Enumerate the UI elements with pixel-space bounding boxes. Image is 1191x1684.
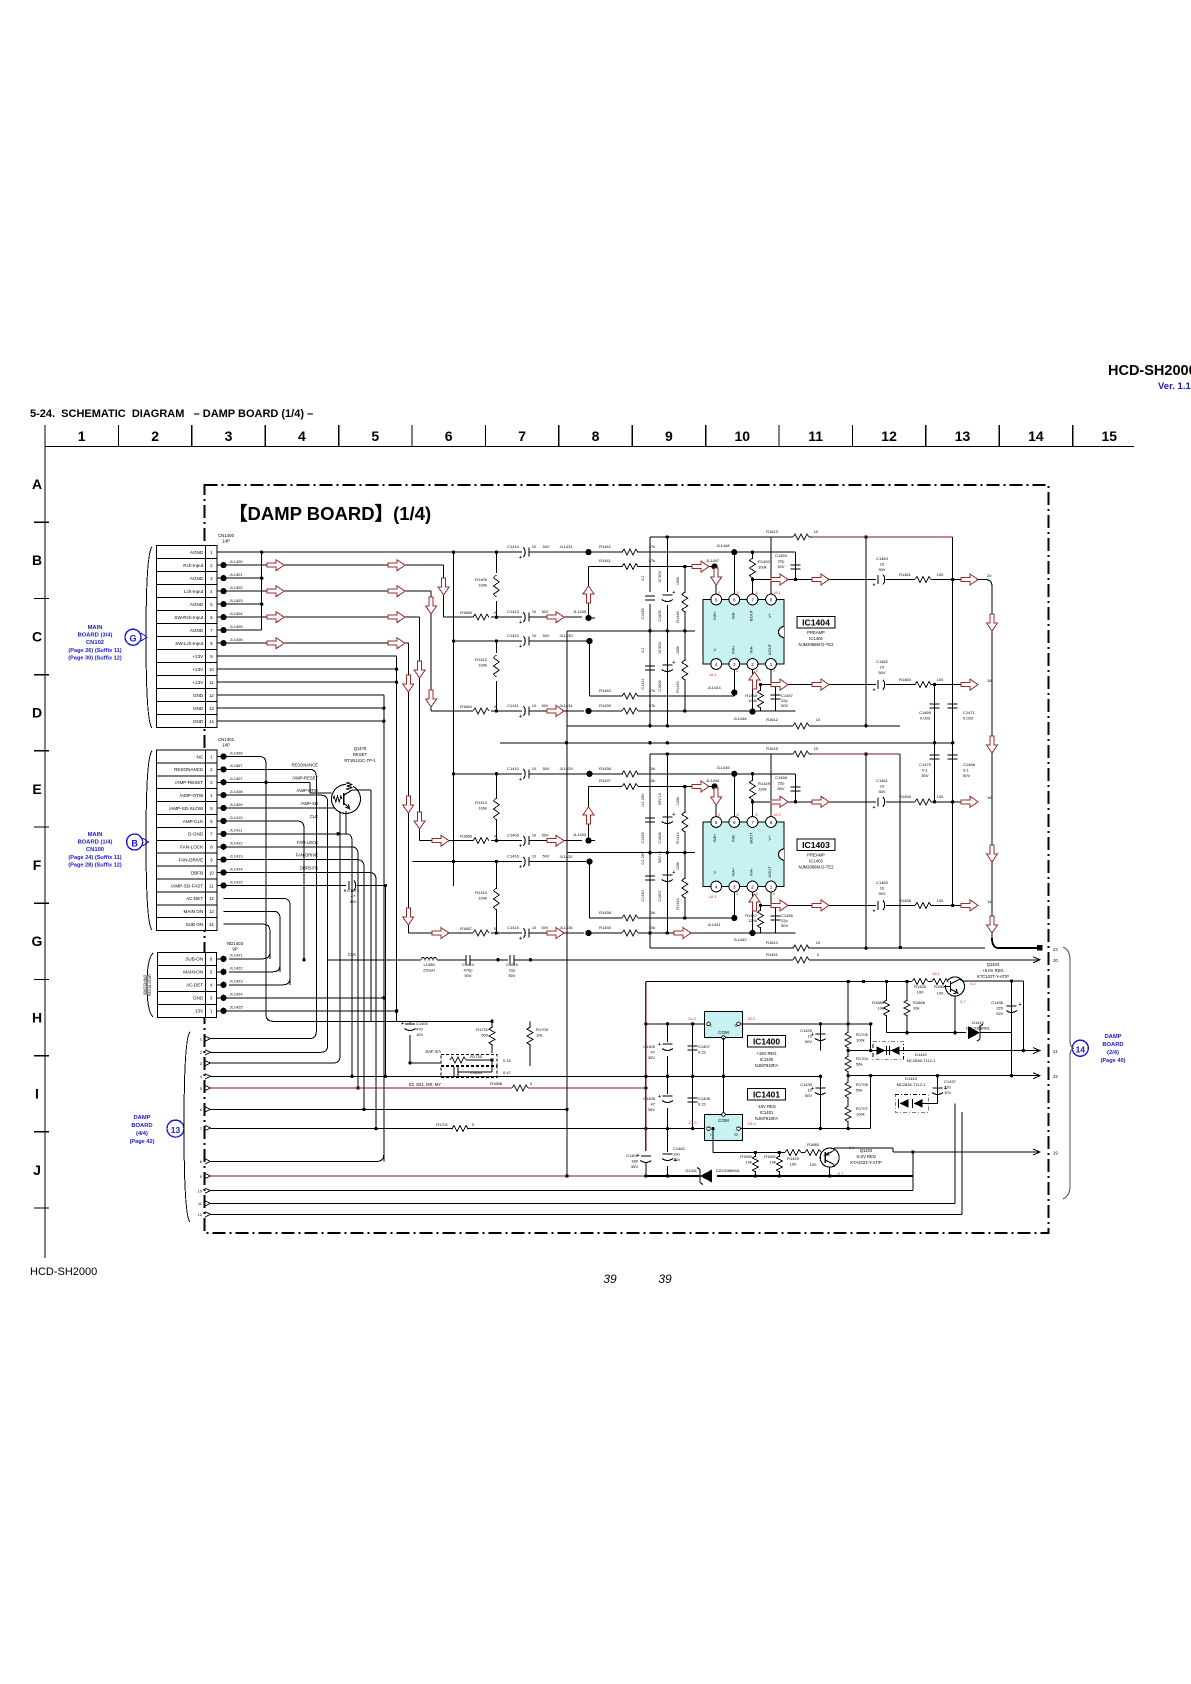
svg-text:15: 15 <box>1102 428 1118 444</box>
svg-text:JL1410: JL1410 <box>230 815 244 820</box>
svg-text:9: 9 <box>665 428 673 444</box>
svg-text:JL1401: JL1401 <box>230 572 244 577</box>
svg-text:+13V: +13V <box>192 654 204 659</box>
svg-text:R1437: R1437 <box>599 778 612 783</box>
svg-text:Rch-Input: Rch-Input <box>183 563 204 568</box>
wire COM ground link <box>722 1038 725 1115</box>
svg-text:120k: 120k <box>758 787 767 792</box>
svg-text:47: 47 <box>351 894 356 899</box>
svg-text:6: 6 <box>445 428 453 444</box>
svg-text:D1443: D1443 <box>905 1076 918 1081</box>
svg-text:C1470: C1470 <box>919 762 932 767</box>
svg-text:R1687: R1687 <box>460 926 473 931</box>
svg-text:+: + <box>519 644 522 650</box>
svg-text:NJM7918FA: NJM7918FA <box>755 1116 778 1121</box>
wire 13V to resistors R1731 R1705 <box>408 1020 530 1065</box>
svg-text:(Page 30) (Suffix 12): (Page 30) (Suffix 12) <box>68 656 122 662</box>
resistor R1685 and capacitor C1413 <box>444 609 582 626</box>
wire DBFB <box>224 873 378 1131</box>
wire output 18 with arrow <box>961 678 992 938</box>
svg-text:BOARD: BOARD <box>1102 1042 1123 1048</box>
svg-text:DAMP: DAMP <box>1104 1034 1121 1040</box>
svg-text:18.2: 18.2 <box>747 1016 756 1021</box>
wire R1441 line <box>573 558 722 621</box>
resistors R1689 R1688 10k <box>872 982 925 1033</box>
svg-text:+: + <box>519 936 522 942</box>
svg-text:8: 8 <box>592 428 600 444</box>
svg-text:+: + <box>658 1042 661 1048</box>
svg-text:+: + <box>519 555 522 561</box>
resistor R1413 100k <box>475 772 500 842</box>
svg-text:R1445: R1445 <box>676 681 680 692</box>
svg-text:C1437: C1437 <box>944 1079 957 1084</box>
svg-text:C1412: C1412 <box>507 633 520 638</box>
svg-text:C1463: C1463 <box>876 556 889 561</box>
svg-text:6: 6 <box>733 597 736 602</box>
wire FAN-LOCK <box>224 847 360 1090</box>
svg-text:R1701: R1701 <box>436 1122 449 1127</box>
resistor R1410 100k <box>475 860 500 935</box>
svg-text:R1614: R1614 <box>766 940 779 945</box>
svg-text:C1460: C1460 <box>876 880 889 885</box>
svg-text:C1435: C1435 <box>641 608 645 619</box>
svg-text:J: J <box>33 1162 41 1178</box>
svg-text:Q1475: Q1475 <box>354 746 367 751</box>
svg-text:AGND: AGND <box>190 576 204 581</box>
wire /AMP-SD-FAST and capacitor C1673 <box>224 880 388 1078</box>
svg-text:R1449: R1449 <box>758 781 771 786</box>
svg-text:INB-: INB- <box>730 611 735 620</box>
wire emitter Q1475 to D-GND <box>338 813 346 834</box>
svg-text:9P: 9P <box>232 947 237 952</box>
svg-text:22p: 22p <box>509 968 516 973</box>
wire pin10 <box>211 1190 913 1192</box>
resistor R1686 and capacitor C1409 <box>420 833 582 850</box>
svg-text:220uH: 220uH <box>423 968 435 973</box>
svg-text:100k: 100k <box>676 577 680 585</box>
svg-text:JL1426: JL1426 <box>230 750 244 755</box>
svg-text:C1430: C1430 <box>800 1082 813 1087</box>
svg-text:13: 13 <box>209 909 214 914</box>
wire ND1403 GND row <box>224 996 386 999</box>
svg-text:56k: 56k <box>856 1062 862 1067</box>
resistor R1449 120k <box>749 774 771 817</box>
wire Q1403 collector to pin 21 <box>959 980 1025 1053</box>
svg-text:35V: 35V <box>631 1164 638 1169</box>
node MAIN BOARD CN100 reference <box>68 832 148 869</box>
svg-text:ND1403: ND1403 <box>227 941 244 946</box>
capacitor C1441 <box>641 631 655 726</box>
capacitor C1400 <box>395 1010 429 1063</box>
svg-text:0.033: 0.033 <box>920 716 931 721</box>
resistor R1445 100k <box>676 631 688 713</box>
svg-text:14: 14 <box>209 922 214 927</box>
wire top rail y537 <box>650 535 868 727</box>
svg-text:JL1447: JL1447 <box>706 558 720 563</box>
svg-text:.8: .8 <box>735 813 738 817</box>
svg-text:10: 10 <box>880 886 885 891</box>
wire pin 19 line <box>893 1148 1058 1176</box>
svg-text:1: 1 <box>78 428 86 444</box>
svg-text:JL1429: JL1429 <box>559 766 573 771</box>
svg-text:/AMP-RESET: /AMP-RESET <box>175 780 203 785</box>
left ruler <box>32 447 49 1259</box>
svg-text:INB-: INB- <box>730 833 735 842</box>
svg-text:SUB-ON: SUB-ON <box>185 957 203 962</box>
svg-text:0.47: 0.47 <box>503 1070 512 1075</box>
svg-text:10: 10 <box>532 545 536 549</box>
svg-text:JL1436: JL1436 <box>559 925 573 930</box>
capacitor C1410 <box>452 766 586 783</box>
board border <box>205 485 1049 1233</box>
capacitor C1608 <box>658 754 675 853</box>
svg-text:100: 100 <box>917 990 924 995</box>
wire AOUT output IC1403 <box>759 892 876 911</box>
svg-text:(Page 26) (Suffix 11): (Page 26) (Suffix 11) <box>68 648 121 654</box>
svg-text:JL1448: JL1448 <box>716 543 730 548</box>
svg-text:14: 14 <box>1028 428 1044 444</box>
svg-text:R1446: R1446 <box>676 611 680 622</box>
svg-text:10 50V: 10 50V <box>658 642 662 655</box>
svg-text:JL1444: JL1444 <box>706 778 720 783</box>
svg-text:47: 47 <box>651 1050 656 1055</box>
svg-text:R1460: R1460 <box>899 677 912 682</box>
svg-text:RESONANCE: RESONANCE <box>291 762 318 767</box>
capacitor C1436 <box>991 979 1021 1032</box>
svg-text:/AMP-SD-SLOW: /AMP-SD-SLOW <box>169 806 204 811</box>
svg-text:JL1431: JL1431 <box>559 544 573 549</box>
svg-text:10: 10 <box>816 717 821 722</box>
svg-text:C1413: C1413 <box>507 609 520 614</box>
wire IC1400 input line <box>644 1016 708 1026</box>
svg-text:BOUT: BOUT <box>749 609 754 621</box>
svg-text:10 50V: 10 50V <box>658 571 662 584</box>
svg-text:R1461: R1461 <box>899 572 912 577</box>
svg-text:AGND: AGND <box>190 628 204 633</box>
svg-text:14: 14 <box>1076 1045 1086 1055</box>
svg-text:39: 39 <box>658 1272 672 1286</box>
svg-text:5: 5 <box>715 597 718 602</box>
jumper links JL1426-JL1415 <box>218 750 244 888</box>
svg-text:(4/4): (4/4) <box>136 1131 148 1137</box>
svg-text:D: D <box>32 705 42 721</box>
svg-text:D1411: D1411 <box>686 1168 698 1173</box>
svg-text:0: 0 <box>736 669 738 673</box>
svg-text:+: + <box>519 844 522 850</box>
svg-text:R1613: R1613 <box>766 529 779 534</box>
svg-text:A: A <box>32 476 42 492</box>
svg-text:JL1424: JL1424 <box>230 992 244 997</box>
svg-text:.8: .8 <box>735 591 738 595</box>
svg-text:0: 0 <box>773 892 775 896</box>
svg-text:100k: 100k <box>478 583 487 588</box>
capacitor C1405 <box>643 1024 675 1076</box>
svg-text:0.22: 0.22 <box>698 1102 707 1107</box>
svg-text:R1409: R1409 <box>475 577 488 582</box>
svg-text:0: 0 <box>756 892 758 896</box>
svg-text:0.1: 0.1 <box>641 575 645 580</box>
resistors R1706 R1707 divider <box>845 1082 869 1122</box>
svg-text:C1401: C1401 <box>626 1153 639 1158</box>
svg-text:10k: 10k <box>878 1006 884 1011</box>
svg-text:47: 47 <box>651 1102 656 1107</box>
svg-text:MAIN: MAIN <box>88 832 103 838</box>
wire top rail y754 <box>650 752 868 950</box>
svg-text:R1429: R1429 <box>787 1156 800 1161</box>
svg-text:50V: 50V <box>542 834 549 838</box>
svg-text:JL1414: JL1414 <box>230 866 244 871</box>
svg-text:1: 1 <box>770 662 773 667</box>
svg-text:C1459: C1459 <box>775 553 788 558</box>
svg-text:100: 100 <box>673 1152 680 1157</box>
svg-text:+18V REG: +18V REG <box>756 1051 776 1056</box>
svg-text:12: 12 <box>209 896 214 901</box>
wire GND bus y742 <box>500 741 954 744</box>
svg-text:+13V: +13V <box>192 667 204 672</box>
node DAMP BOARD 4/4 reference <box>130 1115 184 1145</box>
red voltage labels IC1403 <box>708 813 781 899</box>
svg-text:3: 3 <box>225 428 233 444</box>
svg-text:RESET: RESET <box>353 752 367 757</box>
svg-text:C: C <box>32 628 42 644</box>
svg-text:10: 10 <box>814 529 819 534</box>
svg-text:R1426: R1426 <box>914 984 927 989</box>
svg-text:8: 8 <box>770 820 773 825</box>
svg-text:JL1415: JL1415 <box>230 879 244 884</box>
wire SW-Lch-Input <box>224 638 414 933</box>
svg-text:IC1403: IC1403 <box>802 840 830 850</box>
svg-text:100k: 100k <box>748 698 757 703</box>
svg-text:2: 2 <box>751 884 754 889</box>
resistor R1687 and capacitor C1415 <box>408 925 584 942</box>
svg-text:50V: 50V <box>878 891 885 896</box>
capacitor C1439 <box>641 754 655 853</box>
wire pin 21 line <box>848 1048 1058 1054</box>
svg-text:+: + <box>672 812 675 818</box>
svg-text:C1634: C1634 <box>470 1070 483 1075</box>
svg-text:7: 7 <box>751 820 754 825</box>
wire pin 22 line <box>848 1033 1058 1079</box>
svg-text:R1704: R1704 <box>856 1056 869 1061</box>
svg-text:R1691: R1691 <box>764 1154 777 1159</box>
svg-text:AC-DET: AC-DET <box>186 896 203 901</box>
capacitor C1430 <box>800 1076 826 1130</box>
capacitor C1460 output AC coupling <box>873 880 961 914</box>
svg-text:+: + <box>672 870 675 876</box>
svg-text:470: 470 <box>416 1027 423 1032</box>
svg-text:INB+: INB+ <box>712 610 717 620</box>
wire pin5 red supply <box>211 1086 648 1089</box>
svg-text:R1436: R1436 <box>599 766 612 771</box>
svg-text:C1606: C1606 <box>658 680 662 691</box>
svg-text:FAN-DRIVE: FAN-DRIVE <box>179 857 204 862</box>
svg-text:I: I <box>710 1132 711 1137</box>
svg-text:AOUT: AOUT <box>767 643 772 655</box>
svg-text:120k: 120k <box>676 862 680 870</box>
svg-text:100: 100 <box>937 794 944 799</box>
svg-text:19: 19 <box>1053 1151 1058 1156</box>
svg-text:Ver. 1.1: Ver. 1.1 <box>1158 381 1191 392</box>
svg-text:(Page 40): (Page 40) <box>1101 1058 1126 1064</box>
diode pair D1443 <box>895 1076 928 1112</box>
svg-text:14P: 14P <box>222 743 230 748</box>
wire IC1401 output line <box>741 1074 873 1130</box>
svg-text:MAIN: MAIN <box>88 625 103 631</box>
svg-text:V+: V+ <box>767 835 772 841</box>
label IC1401 <box>748 1089 786 1122</box>
svg-text:NJM2068M-D-TE2: NJM2068M-D-TE2 <box>799 642 835 647</box>
svg-text:BOUT: BOUT <box>749 832 754 844</box>
wire rail R1612 <box>567 641 900 1176</box>
svg-text:FAN-LOCK: FAN-LOCK <box>180 845 204 850</box>
svg-text:Lch-Input: Lch-Input <box>184 589 204 594</box>
svg-text:+: + <box>672 590 675 596</box>
capacitor C1605 <box>658 537 675 631</box>
svg-text:R1731: R1731 <box>476 1027 489 1032</box>
svg-text:+5.0V REG: +5.0V REG <box>982 968 1003 973</box>
svg-text:8: 8 <box>770 597 773 602</box>
svg-text:0.1 25V: 0.1 25V <box>641 851 645 865</box>
transistor Q1403 <box>932 962 1009 1004</box>
svg-text:12: 12 <box>881 428 897 444</box>
capacitor C1461 output AC coupling <box>873 778 961 811</box>
svg-text:10: 10 <box>209 667 214 672</box>
svg-text:AGND: AGND <box>190 602 204 607</box>
svg-text:RESONANCE: RESONANCE <box>174 767 203 772</box>
wire output 16 with arrow <box>961 795 998 938</box>
wire AMP-CLK to CLK line <box>224 821 306 962</box>
brace damp board 2/4 <box>1063 947 1074 1199</box>
svg-text:C1409: C1409 <box>507 833 520 838</box>
capacitor C1458 22p <box>775 774 800 802</box>
wire /AMP-SD-SLOW <box>211 808 386 1076</box>
svg-text:100k: 100k <box>478 663 487 668</box>
svg-text:HCD-SH2000: HCD-SH2000 <box>1108 363 1191 379</box>
svg-text:C1440: C1440 <box>641 890 645 901</box>
wire AGND bus from CN1400 pin1 <box>218 551 456 631</box>
wire Q1403 emitter <box>953 996 956 1034</box>
capacitor C1457 22p <box>771 685 794 711</box>
page footer <box>30 1266 672 1286</box>
svg-text:100: 100 <box>937 677 944 682</box>
connector to damp board 4/4 pins 1-12 <box>184 1032 211 1222</box>
svg-text:DBFB: DBFB <box>191 870 203 875</box>
svg-text:R1705: R1705 <box>536 1027 549 1032</box>
svg-text:50V: 50V <box>805 1093 812 1098</box>
svg-text:100: 100 <box>937 898 944 903</box>
svg-text:C1605: C1605 <box>658 610 662 621</box>
svg-text:50V: 50V <box>543 634 550 638</box>
wire dark red to output column <box>812 537 953 580</box>
svg-text:100k: 100k <box>478 896 487 901</box>
svg-text:IC1401: IC1401 <box>753 1090 780 1100</box>
capacitors C1470 C1468 <box>919 743 975 906</box>
svg-text:50V: 50V <box>543 545 550 549</box>
svg-text:KTC102T-Y-AT/P: KTC102T-Y-AT/P <box>977 974 1009 979</box>
svg-text:/AMP-SD-FAST: /AMP-SD-FAST <box>171 883 203 888</box>
svg-text:R1441: R1441 <box>599 558 612 563</box>
svg-text:R1442: R1442 <box>599 544 612 549</box>
resistor R1448 100k <box>745 685 764 711</box>
connector CN1401 <box>146 737 235 931</box>
capacitor C1416 <box>413 854 586 871</box>
svg-text:16V: 16V <box>416 1032 423 1037</box>
svg-text:-5.7: -5.7 <box>837 1171 845 1176</box>
svg-text:+: + <box>1019 1002 1022 1008</box>
svg-text:JL1434: JL1434 <box>559 703 573 708</box>
svg-text:0.1 25V: 0.1 25V <box>641 793 645 807</box>
svg-text:JL1430: JL1430 <box>559 633 573 638</box>
svg-text:JL1425: JL1425 <box>230 1005 244 1010</box>
resistor R1447 120k <box>745 905 764 933</box>
zener diode D1411 <box>686 1168 741 1185</box>
svg-text:50V 10: 50V 10 <box>658 851 662 863</box>
svg-text:13V: 13V <box>195 1009 204 1014</box>
svg-text:4: 4 <box>298 428 306 444</box>
wire R1436 line <box>559 765 795 817</box>
svg-text:0.22: 0.22 <box>698 1050 707 1055</box>
svg-text:220: 220 <box>996 1006 1003 1011</box>
svg-text:R1438: R1438 <box>599 910 612 915</box>
wire pin8 to GND bus <box>211 1154 384 1161</box>
svg-text:22p: 22p <box>778 559 785 564</box>
svg-text:50V: 50V <box>542 610 549 614</box>
svg-text:+: + <box>344 888 347 894</box>
resistors R1426 R1684 base <box>907 978 948 996</box>
svg-text:IC1400: IC1400 <box>760 1057 774 1062</box>
resistor R1688 0 <box>490 1081 533 1092</box>
svg-text:GND: GND <box>193 693 204 698</box>
svg-text:18.1: 18.1 <box>773 591 780 595</box>
svg-text:10k: 10k <box>746 1160 752 1165</box>
svg-text:/AMP-OTW: /AMP-OTW <box>180 793 204 798</box>
svg-text:JL1400: JL1400 <box>230 559 244 564</box>
svg-text:50V: 50V <box>805 1039 812 1044</box>
svg-text:JL1423: JL1423 <box>230 979 244 984</box>
svg-text:AOUT: AOUT <box>767 866 772 878</box>
net labels CN1401 signals <box>291 762 318 870</box>
svg-text:4: 4 <box>715 884 718 889</box>
regulator IC1400 <box>705 1012 743 1040</box>
svg-text:10: 10 <box>816 940 821 945</box>
svg-text:AMP-CLK: AMP-CLK <box>183 819 204 824</box>
capacitor C1440 <box>641 851 655 948</box>
svg-text:【DAMP BOARD】(1/4): 【DAMP BOARD】(1/4) <box>229 503 431 524</box>
svg-text:C1461: C1461 <box>876 778 889 783</box>
svg-text:120k: 120k <box>676 797 680 805</box>
svg-text:IC1401: IC1401 <box>760 1110 774 1115</box>
svg-text:JL1405: JL1405 <box>230 624 244 629</box>
capacitor C1456 22p <box>771 905 794 933</box>
wire AOUT output <box>759 670 876 691</box>
wire +13V bus <box>218 656 437 1011</box>
svg-text:50V: 50V <box>543 767 550 771</box>
svg-text:50V: 50V <box>963 773 970 778</box>
capacitor C1407 <box>688 1024 711 1076</box>
svg-text:+: + <box>873 583 876 589</box>
resistor R1705 10k <box>526 1027 548 1066</box>
wire BOUT output <box>751 574 876 585</box>
board title <box>229 503 431 524</box>
wire D-GND <box>224 832 354 1078</box>
svg-text:3: 3 <box>733 884 736 889</box>
svg-text:10k: 10k <box>536 1033 542 1038</box>
wire R1437 line <box>573 778 722 844</box>
svg-text:50V: 50V <box>508 973 515 978</box>
wire base line Q1404 <box>711 1127 824 1167</box>
svg-text:C1458: C1458 <box>775 775 788 780</box>
svg-text:0: 0 <box>736 892 738 896</box>
